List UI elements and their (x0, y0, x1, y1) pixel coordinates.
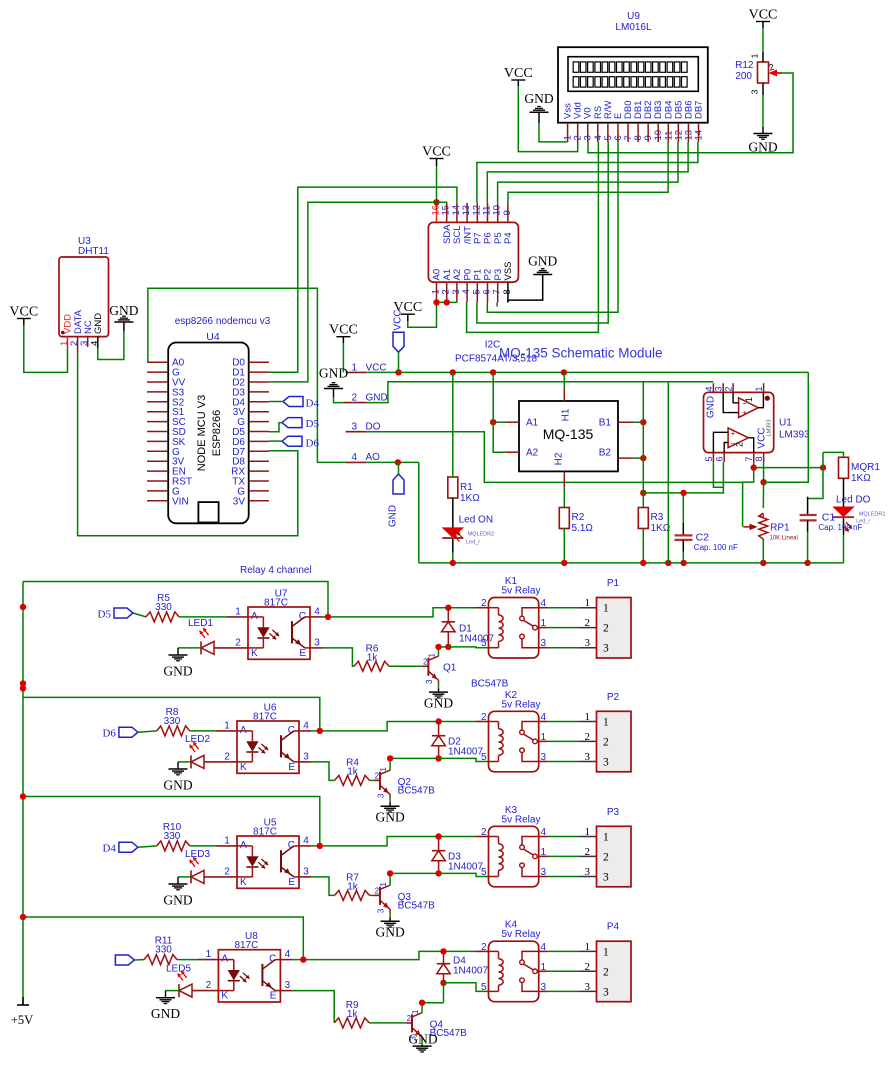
wire B1 B2 R3 (634, 421, 643, 423)
wires relay K1 to connector P1 (539, 607, 547, 609)
svg-text:VIN: VIN (172, 496, 189, 507)
svg-text:Q1: Q1 (443, 662, 457, 673)
wire opto pin4 to relay K4 (280, 959, 292, 961)
svg-text:330: 330 (164, 831, 181, 842)
svg-text:1: 1 (603, 946, 609, 958)
wire tag to U5 input resistor (138, 846, 157, 847)
ground GND (DHT11) (109, 303, 138, 322)
svg-text:GND: GND (93, 313, 104, 334)
svg-text:GND: GND (319, 366, 348, 381)
wire +5V rail row 1 (23, 582, 328, 617)
svg-text:VSS: VSS (503, 261, 514, 280)
svg-text:5: 5 (481, 982, 487, 993)
wire LM393 pin7 output (743, 462, 754, 527)
svg-text:1: 1 (585, 941, 591, 953)
wire Q2 emitter to GND (389, 794, 391, 798)
svg-text:P2: P2 (607, 692, 620, 703)
label D3 1N4007 (448, 852, 483, 873)
tag input (row 4) (115, 955, 134, 965)
svg-text:esp8266 nodemcu v3: esp8266 nodemcu v3 (175, 316, 271, 327)
svg-text:VCC: VCC (329, 323, 358, 338)
LED LED2 (185, 734, 210, 768)
resistor R2 5.1 (559, 508, 593, 535)
svg-text:2: 2 (224, 866, 230, 877)
microcontroller U4 NodeMCU ESP8266 (147, 316, 271, 523)
svg-text:GND: GND (424, 695, 453, 710)
svg-text:2: 2 (585, 731, 591, 743)
wire R8 to opto pin1 (190, 730, 216, 732)
wire GND to LED2 (178, 761, 191, 763)
svg-text:E: E (270, 991, 277, 1002)
svg-text:2: 2 (603, 966, 609, 978)
wire PCF A0-A2 to VCC (437, 301, 458, 303)
svg-text:3: 3 (351, 422, 357, 433)
svg-text:Cap. 100 nF: Cap. 100 nF (694, 543, 738, 552)
wire AO line (366, 461, 418, 463)
svg-text:5: 5 (704, 456, 714, 461)
diode D2 1N4007 (432, 722, 446, 759)
wire PCF VSS to GND (508, 275, 543, 303)
svg-text:1: 1 (206, 949, 212, 960)
svg-text:2: 2 (235, 637, 241, 648)
svg-text:BC547B: BC547B (398, 785, 436, 796)
wire GND to LED5 (166, 990, 180, 992)
label D2 1N4007 (448, 737, 483, 758)
comparator U1 LM393 (704, 383, 811, 462)
svg-text:C1: C1 (822, 512, 836, 524)
svg-text:D5: D5 (98, 609, 112, 621)
svg-text:K: K (240, 877, 247, 888)
ground GND (row 4 input) (151, 998, 180, 1021)
ground GND (Q2) (375, 806, 404, 824)
wire A1 A2 (493, 421, 505, 423)
svg-text:+5V: +5V (11, 1013, 33, 1027)
svg-text:3: 3 (603, 643, 609, 655)
resistor R5 330 (146, 593, 179, 622)
svg-text:+: + (742, 409, 747, 418)
svg-text:MQ-135 Schematic Module: MQ-135 Schematic Module (499, 346, 663, 361)
svg-text:2: 2 (603, 623, 609, 635)
LED LED3 (185, 849, 210, 883)
svg-text:3: 3 (714, 386, 724, 391)
svg-text:1: 1 (754, 386, 764, 391)
svg-text:MQLEDR2: MQLEDR2 (468, 532, 495, 538)
wire LCD DB6 bus (487, 142, 688, 203)
wire header GND to rail2 (366, 382, 713, 403)
wire tag to U6 input resistor (138, 731, 157, 732)
connector P3 (597, 807, 632, 887)
wire Led DO to GND rail (843, 535, 845, 563)
svg-text:1: 1 (603, 717, 609, 729)
wire NodeMCU A0 loop to header AO (146, 361, 149, 363)
I2C I/O expander PCF8574 (428, 203, 518, 303)
wire Q3 collector (389, 873, 391, 885)
tag input (row 2) (102, 727, 137, 740)
wire LED2 to opto pin2 (204, 761, 237, 763)
svg-text:MQLEDR1: MQLEDR1 (859, 512, 886, 518)
wire D3 to relay pin5 (439, 873, 489, 876)
wire relay K3 pin2 stub (476, 836, 489, 838)
svg-text:BC547B: BC547B (471, 678, 509, 689)
ground GND (header pin2) (319, 366, 348, 403)
ground GND (Q1) (424, 692, 453, 710)
svg-text:GND: GND (375, 809, 404, 824)
wire NodeMCU D4 to tag (269, 401, 283, 403)
wire R5 to opto pin1 (179, 616, 227, 618)
svg-text:3V: 3V (233, 496, 246, 507)
ground GND (PCF VSS) (528, 254, 557, 275)
svg-text:3: 3 (585, 981, 591, 993)
wire RP1 to GND rail (762, 539, 764, 563)
wire relay K2 pin2 stub (476, 721, 489, 723)
svg-text:GND: GND (524, 91, 553, 106)
svg-text:MQ-135: MQ-135 (543, 426, 594, 442)
wire Q1 emitter to GND (438, 680, 440, 684)
wire B2 node to comparator pin6 (643, 462, 723, 493)
svg-text:P4: P4 (607, 922, 620, 933)
svg-text:E: E (288, 877, 295, 888)
wire opto pin3 to R9 (280, 990, 292, 992)
optocoupler U5 817C (224, 818, 309, 889)
svg-text:1: 1 (585, 826, 591, 838)
svg-text:H1: H1 (561, 408, 572, 421)
svg-text:VCC: VCC (422, 145, 451, 160)
wire DHT11 DATA to NodeMCU D7 (78, 353, 298, 536)
svg-text:1N4007: 1N4007 (459, 634, 494, 645)
capacitor C2 100nF (675, 493, 738, 563)
wire R6 to Q1 base (389, 665, 422, 667)
svg-text:5v Relay: 5v Relay (502, 699, 541, 710)
svg-text:B1: B1 (599, 418, 612, 429)
wire R4 to Q2 base (370, 779, 375, 781)
resistor R8 330 (157, 707, 190, 736)
wire D2 to relay pin5 (439, 758, 489, 761)
svg-text:6: 6 (715, 456, 725, 461)
svg-text:A1: A1 (526, 418, 539, 429)
svg-text:GND: GND (528, 254, 557, 269)
svg-text:2: 2 (585, 617, 591, 629)
svg-text:4: 4 (704, 386, 714, 391)
wire VCC to PCF pin16 (436, 159, 438, 167)
svg-text:330: 330 (155, 945, 172, 956)
svg-text:BC547B: BC547B (398, 900, 436, 911)
wire opto pin3 to R6 (310, 647, 322, 649)
svg-text:2: 2 (735, 442, 745, 447)
wire relay K1 pin2 stub (476, 607, 489, 609)
svg-text:2: 2 (375, 886, 380, 895)
wire DO line to comparator (366, 432, 742, 483)
ground GND (LCD Vss) (524, 91, 553, 112)
svg-text:+: + (731, 429, 736, 438)
svg-text:330: 330 (155, 602, 172, 613)
capacitor C1 100nF (800, 497, 863, 563)
svg-text:1: 1 (585, 711, 591, 723)
power VCC (LCD Vdd) (504, 66, 533, 86)
diode D3 1N4007 (432, 837, 446, 874)
svg-text:3: 3 (585, 866, 591, 878)
svg-text:P3: P3 (607, 807, 620, 818)
svg-text:K: K (240, 762, 247, 773)
svg-text:1: 1 (603, 603, 609, 615)
svg-text:RP1: RP1 (770, 523, 790, 534)
ground GND (Q3) (375, 921, 404, 939)
wire LCD DB4 bus (508, 142, 668, 203)
wire GND to LED3 (178, 876, 191, 878)
svg-text:K: K (251, 648, 258, 659)
svg-text:1KΩ: 1KΩ (460, 493, 480, 504)
svg-text:ESP8266: ESP8266 (211, 410, 223, 456)
wire PCF P3 stub (496, 302, 498, 306)
svg-text:1: 1 (750, 53, 760, 58)
svg-text:K: K (221, 991, 228, 1002)
svg-text:1N4007: 1N4007 (453, 966, 488, 977)
relay K1 5v Relay (481, 576, 547, 658)
svg-text:Led ON: Led ON (459, 515, 493, 526)
svg-text:3: 3 (603, 872, 609, 884)
wire R9 to Q4 base (369, 1022, 406, 1024)
tag D6 (NodeMCU) (282, 436, 319, 449)
svg-text:1: 1 (427, 653, 436, 658)
svg-text:1N4007: 1N4007 (448, 862, 483, 873)
svg-text:3: 3 (376, 793, 385, 798)
transistor Q3 BC547B (375, 882, 436, 914)
svg-text:1: 1 (235, 606, 241, 617)
svg-text:4: 4 (314, 606, 320, 617)
tag input (row 3) (102, 842, 137, 855)
transistor Q2 BC547B (375, 767, 436, 799)
svg-text:3: 3 (603, 986, 609, 998)
svg-text:R12: R12 (735, 60, 754, 71)
LED LED1 (188, 618, 214, 654)
optocoupler U8 817C (206, 931, 291, 1002)
wire GND rail bottom (419, 562, 844, 564)
relay K2 5v Relay (481, 690, 547, 772)
svg-text:GND: GND (151, 1006, 180, 1021)
wire R11 to opto pin1 (177, 959, 197, 961)
label D1 1N4007 (459, 624, 494, 645)
svg-text:1: 1 (411, 1009, 420, 1014)
wire Q4 collector (421, 1003, 423, 1013)
wire LED3 to opto pin2 (204, 876, 237, 878)
svg-text:R1: R1 (460, 482, 473, 493)
sensor U3 DHT11 (59, 236, 109, 353)
svg-text:2: 2 (206, 980, 212, 991)
resistor R11 330 (144, 936, 177, 965)
diode D1 1N4007 (442, 608, 456, 647)
power +5V (11, 997, 33, 1027)
wire LED1 to opto pin2 (214, 647, 248, 649)
svg-text:D4: D4 (102, 843, 116, 855)
wire R10 to opto pin1 (190, 845, 216, 847)
wire Q4 emitter to GND (421, 1037, 423, 1041)
svg-text:200: 200 (735, 71, 752, 82)
wire VCC rail to R1 (452, 372, 454, 477)
svg-text:U1: U1 (779, 418, 792, 429)
wire GND to LED1 (178, 647, 201, 649)
svg-text:5v Relay: 5v Relay (502, 586, 541, 597)
wire LM393 pin7 to MQR1 and C1 (754, 467, 823, 469)
wires relay K2 to connector P2 (539, 721, 547, 723)
svg-text:1: 1 (379, 767, 388, 772)
svg-text:GND: GND (163, 892, 192, 907)
svg-text:GND: GND (388, 505, 399, 527)
wire DHT11 GND (97, 337, 99, 348)
svg-text:3: 3 (303, 751, 309, 762)
wire NodeMCU D1 to PCF pin14 (269, 187, 457, 372)
node I2C module header pin1 VCC (346, 363, 387, 374)
wire R7 to Q3 base (370, 894, 375, 896)
svg-text:R3: R3 (651, 512, 664, 523)
svg-text:3: 3 (585, 751, 591, 763)
svg-text:NODE MCU V3: NODE MCU V3 (196, 395, 208, 471)
svg-text:A2: A2 (526, 448, 539, 459)
wire LED5 to opto pin2 (192, 990, 218, 992)
wire D1 to relay pin5 (448, 646, 488, 649)
wire opto pin4 to relay K2 (299, 730, 311, 732)
svg-text:2: 2 (585, 961, 591, 973)
wire opto pin4 to relay K3 (299, 845, 311, 847)
LCD module U9 LM016L (558, 11, 708, 142)
svg-text:4: 4 (285, 949, 291, 960)
svg-text:LM016L: LM016L (615, 22, 652, 33)
svg-text:4: 4 (89, 341, 100, 346)
svg-text:LM393: LM393 (779, 430, 810, 441)
tag D4 (NodeMCU) (283, 397, 319, 410)
relay K3 5v Relay (481, 805, 547, 887)
relay K4 5v Relay (481, 920, 547, 1002)
svg-text:AO: AO (366, 452, 381, 463)
svg-text:GND: GND (408, 1031, 437, 1046)
svg-text:E: E (299, 648, 306, 659)
svg-text:GND: GND (375, 924, 404, 939)
svg-text:I2C: I2C (485, 340, 501, 351)
svg-text:LED5: LED5 (166, 964, 191, 975)
svg-text:1: 1 (744, 397, 754, 402)
svg-text:LED2: LED2 (185, 734, 210, 745)
svg-text:P4: P4 (503, 232, 514, 244)
svg-text:2: 2 (724, 386, 734, 391)
resistor R1 1K (448, 477, 480, 504)
wire +5V rail row 4 (23, 917, 303, 960)
power VCC (header pin1) (329, 323, 358, 373)
svg-text:LED3: LED3 (185, 849, 210, 860)
wire opto pin4 to relay K1 (310, 616, 322, 618)
wires relay K3 to connector P3 (539, 836, 547, 838)
resistor MQR1 1K (839, 457, 881, 484)
wire LCD V0 to R12 wiper (588, 73, 793, 153)
wire +5V trunk (22, 582, 24, 1006)
wire Q2 collector (389, 758, 391, 770)
svg-text:4: 4 (303, 720, 309, 731)
wire opto pin3 to R4 (299, 761, 311, 763)
LED Led ON (MQLEDR2) (442, 515, 494, 546)
wire R1 to Led ON (452, 498, 454, 553)
ground GND (Q4) (408, 1031, 437, 1052)
svg-text:10K Lineal: 10K Lineal (770, 536, 798, 542)
svg-text:E: E (288, 762, 295, 773)
svg-text:2: 2 (407, 1014, 412, 1023)
ground GND (R12) (748, 134, 777, 155)
wire tag to U8 input resistor (134, 959, 144, 961)
svg-text:Led_r: Led_r (466, 540, 480, 546)
svg-text:GND: GND (163, 663, 192, 678)
svg-text:3: 3 (303, 866, 309, 877)
svg-text:B2: B2 (599, 448, 612, 459)
wire LM393 pin8 VCC (763, 462, 765, 482)
svg-text:8: 8 (754, 456, 764, 461)
ground GND (row 3 input) (163, 884, 192, 907)
svg-text:GND: GND (706, 396, 717, 418)
resistor R3 1K (638, 508, 670, 535)
resistor R10 330 (157, 822, 190, 851)
svg-text:4: 4 (351, 452, 357, 463)
svg-text:1: 1 (585, 597, 591, 609)
label D4 1N4007 (453, 956, 488, 977)
wire R2 to GND rail (563, 529, 565, 563)
svg-text:GND: GND (163, 777, 192, 792)
svg-text:LED1: LED1 (188, 618, 213, 629)
node I2C header pin4 AO (346, 452, 381, 463)
svg-text:Relay 4 channel: Relay 4 channel (240, 565, 312, 576)
wire LCD R/W down (477, 142, 608, 323)
wire Q1 collector (438, 647, 440, 656)
ground GND (row 1 input) (163, 655, 192, 678)
svg-text:2: 2 (603, 736, 609, 748)
wire D4 to relay pin5 (444, 983, 489, 992)
svg-text:U9: U9 (627, 11, 640, 22)
svg-text:1N4007: 1N4007 (448, 747, 483, 758)
svg-text:2: 2 (423, 657, 428, 666)
svg-text:DO: DO (366, 422, 381, 433)
svg-text:H2: H2 (554, 452, 565, 465)
optocoupler U7 817C (235, 589, 320, 660)
wire R12 pin3 to GND (762, 83, 764, 95)
svg-text:3: 3 (750, 89, 760, 94)
transistor Q4 BC547B (407, 1009, 468, 1041)
svg-text:D5: D5 (306, 418, 320, 430)
wire rail2 drop at x668 (667, 382, 669, 563)
tag GND (I2C module) (388, 462, 405, 527)
svg-text:C2: C2 (696, 532, 710, 544)
svg-text:DB7: DB7 (694, 101, 705, 119)
svg-text:DHT11: DHT11 (78, 246, 109, 257)
svg-text:1KΩ: 1KΩ (851, 473, 871, 484)
tag D5 (NodeMCU) (282, 418, 319, 430)
wire MQR1 to Led DO (843, 478, 845, 535)
svg-text:3: 3 (603, 757, 609, 769)
svg-text:7: 7 (744, 456, 754, 461)
svg-text:1: 1 (224, 835, 230, 846)
svg-text:MQR1: MQR1 (851, 462, 880, 473)
optocoupler U6 817C (224, 703, 309, 774)
wire LCD RS down (467, 142, 599, 332)
wire header VCC rail (366, 371, 808, 373)
resistor R4 1k (335, 757, 370, 785)
ground GND (row 2 input) (163, 769, 192, 792)
wire VCC to LCD Vdd (518, 86, 577, 152)
wire LCD E down (487, 142, 618, 312)
svg-text:D6: D6 (306, 438, 320, 450)
gas sensor MQ-135 (506, 388, 635, 487)
svg-text:2: 2 (603, 851, 609, 863)
potentiometer R12 200 (735, 53, 782, 94)
svg-text:5v Relay: 5v Relay (502, 814, 541, 825)
svg-text:5v Relay: 5v Relay (502, 929, 541, 940)
svg-text:3: 3 (585, 637, 591, 649)
wire LCD Vss to GND (538, 112, 540, 123)
wire relay K4 pin2 stub (476, 950, 489, 952)
power VCC (PCF address pins) (393, 300, 422, 321)
